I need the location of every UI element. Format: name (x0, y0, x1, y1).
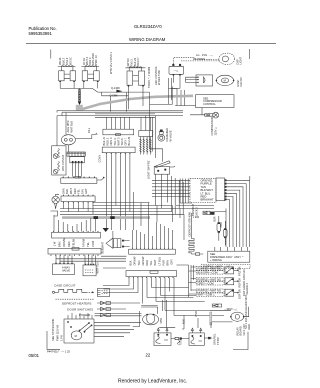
svg-text:SEE SYSTEM WIR: SEE SYSTEM WIR (51, 319, 55, 341)
wire auger conn drops (73, 163, 82, 177)
connector bar J5 (129, 249, 176, 254)
svg-text:BLU J9: BLU J9 (127, 136, 131, 145)
svg-text:A.L. PLN · —: A.L. PLN · — (196, 53, 213, 57)
svg-text:TAN/W: TAN/W (81, 238, 85, 247)
svg-text:FILL: FILL (87, 127, 91, 133)
water valve box A (53, 264, 75, 275)
door switch feed wires (177, 265, 197, 297)
control board connector P2 (102, 147, 135, 153)
svg-text:WHT: WHT (69, 188, 73, 194)
svg-text:ORN/W: ORN/W (62, 238, 66, 247)
control board connector P1 (103, 129, 134, 135)
svg-text:1 PH: 1 PH (60, 335, 64, 341)
svg-text:BRN/WHT: BRN/WHT (201, 198, 214, 202)
svg-text:CASE CIRCUIT: CASE CIRCUIT (54, 284, 76, 288)
svg-text:RED 2: RED 2 (106, 137, 110, 145)
power bus right (94, 322, 141, 336)
icemaker connector (139, 131, 153, 137)
svg-text:BLK: BLK (129, 260, 133, 265)
svg-text:115V △: 115V △ (214, 126, 218, 136)
evap fan start device (196, 75, 213, 86)
case circuit heater line (52, 291, 54, 293)
wire bracket under J2 (51, 202, 94, 216)
svg-text:BLK J1: BLK J1 (102, 137, 106, 146)
svg-text:RD4 C7: RD4 C7 (136, 57, 140, 67)
wires into dispenser (215, 247, 248, 251)
connector bar J6 (126, 271, 177, 277)
svg-text:BLK 2: BLK 2 (62, 57, 66, 65)
svg-text:RN5 2: RN5 2 (129, 59, 133, 67)
jack plug (203, 211, 210, 214)
svg-text:ORN: ORN (61, 188, 65, 194)
svg-text:1 W: 1 W (53, 241, 57, 247)
ADC defrost control relay (169, 66, 184, 74)
dashed wire to display light (173, 58, 219, 64)
svg-text:W DEF TMR: W DEF TMR (157, 70, 161, 85)
wires header to dispenser (226, 180, 249, 247)
timer box right edge (210, 312, 212, 325)
svg-text:ORN/W: ORN/W (133, 256, 137, 265)
svg-text:PNK: PNK (194, 311, 198, 317)
caption bracket (47, 331, 60, 349)
svg-text:NO 1 10A AND GUARD MOS: NO 1 10A AND GUARD MOS (244, 294, 248, 329)
overload relay K2 (81, 66, 99, 68)
solenoid plug left (106, 238, 113, 248)
wire nest bends right (176, 206, 226, 248)
ground screw icemaker (158, 134, 165, 141)
svg-text:DEFROST HTR 45W: DEFROST HTR 45W (188, 211, 192, 236)
wire nest verticals (134, 176, 184, 240)
wire C3 drops (129, 78, 173, 162)
harness gray bundle B (62, 216, 150, 219)
svg-text:PUR: PUR (161, 260, 165, 266)
svg-text:DOOR SWITCHES: DOOR SWITCHES (67, 307, 93, 311)
svg-text:COM: COM (91, 241, 95, 247)
wire compressor drop (190, 108, 205, 115)
wire relay bottoms (60, 83, 149, 92)
svg-text:TAN 6: TAN 6 (120, 138, 124, 146)
freezer light switch (154, 167, 169, 175)
svg-text:YEL/W: YEL/W (72, 238, 76, 247)
svg-text:BLK/ORN—COM: BLK/ORN—COM (198, 270, 218, 274)
defrost thermostat S1 (154, 333, 171, 346)
svg-text:HTR CONN B: HTR CONN B (61, 155, 65, 171)
svg-text:GREY—COM: GREY—COM (198, 281, 214, 285)
svg-text:LT BLU: LT BLU (157, 257, 161, 266)
valve box B (83, 265, 96, 276)
mullion heater box (52, 146, 66, 175)
svg-text:FRZ DR: FRZ DR (238, 266, 242, 276)
svg-text:WHT: WHT (153, 259, 157, 265)
compressor relay K1 (58, 66, 76, 68)
svg-text:PURPLE—WHT NO: PURPLE—WHT NO (198, 266, 222, 270)
dispenser assembly box (208, 251, 250, 262)
svg-text:3W RC: 3W RC (126, 58, 130, 66)
compressor control box (196, 95, 235, 108)
svg-text:NO 1 10V: NO 1 10V (242, 324, 246, 336)
power row plug (101, 313, 106, 316)
svg-text:GRY: GRY (170, 259, 174, 266)
condenser fan motor (231, 312, 244, 321)
svg-text:WTR VLV CONN 1: WTR VLV CONN 1 (109, 52, 113, 74)
svg-text:BRN: BRN (57, 241, 61, 247)
bundle B junctions (94, 216, 99, 219)
svg-text:WHT BLK: WHT BLK (69, 121, 73, 133)
harness gray bundle A (83, 96, 194, 109)
svg-text:WTR VLV: WTR VLV (96, 262, 100, 274)
svg-text:WHT—COM △: WHT—COM △ (198, 293, 216, 297)
door row plug (101, 307, 106, 310)
svg-text:RED: RED (247, 324, 251, 330)
twisted pair drop (79, 88, 81, 102)
power box top wires (68, 313, 92, 319)
connector bar J2 (61, 196, 95, 202)
svg-text:M: M (224, 79, 226, 83)
wire bus under bundle (57, 111, 183, 146)
junction arrowhead (78, 102, 81, 106)
svg-text:3W RL: 3W RL (58, 57, 62, 65)
header rule (26, 43, 276, 45)
dispenser harness header (190, 179, 216, 203)
svg-text:POWER: POWER (79, 313, 90, 317)
svg-text:GRN/W: GRN/W (141, 256, 145, 265)
display light DSP (219, 53, 235, 64)
connector bar J1 (61, 178, 97, 184)
wire auger (66, 113, 97, 139)
refrigerator door switch (196, 278, 224, 281)
svg-text:AUG MTR: AUG MTR (66, 120, 70, 132)
case dashed underline (56, 298, 95, 300)
thermistor R1 (217, 223, 221, 231)
wire fan feeds (172, 75, 199, 89)
wire rightmost drop (249, 176, 251, 180)
wires J6 to switch rows (147, 288, 224, 316)
freezer door switch (196, 267, 224, 270)
bracket tick right of DSP (249, 49, 251, 59)
auger motor (61, 135, 75, 145)
cond fan wires (210, 307, 249, 322)
wire arrow junction (116, 90, 122, 93)
svg-text:RED: RED (73, 188, 77, 194)
svg-text:TDM-5, *, # 30MM: TDM-5, *, # 30MM (147, 67, 151, 88)
svg-text:JACK 2: JACK 2 (195, 207, 199, 216)
svg-text:DSP DR: DSP DR (238, 289, 242, 299)
svg-text:BLK: BLK (65, 189, 69, 194)
timer wires (133, 300, 176, 328)
svg-text:ADC CONTROL: ADC CONTROL (154, 66, 158, 85)
svg-text:VALVE: VALVE (62, 268, 70, 272)
svg-text:PWC 1C: PWC 1C (94, 55, 98, 65)
svg-text:DEFROST HEATERS: DEFROST HEATERS (62, 302, 92, 306)
S2 output wire (204, 337, 212, 339)
dispenser door switch (196, 289, 224, 292)
svg-text:TSTAT: TSTAT (216, 337, 220, 345)
svg-text:PURPLE—WHT NO: PURPLE—WHT NO (198, 277, 222, 281)
svg-text:GRY 7: GRY 7 (124, 137, 128, 145)
ground screw left (52, 196, 59, 203)
svg-text:LIGHT SW FRZ: LIGHT SW FRZ (146, 160, 150, 179)
svg-text:TAN: TAN (137, 260, 141, 265)
harness bundle block (76, 105, 83, 111)
svg-text:Rendered by LeadVenture, Inc.: Rendered by LeadVenture, Inc. (118, 379, 187, 385)
svg-text:PWR 115V 60: PWR 115V 60 (55, 324, 59, 341)
svg-text:CONTROL: CONTROL (203, 102, 216, 106)
defrost heater element (189, 213, 203, 255)
svg-text:ORN 3: ORN 3 (109, 137, 113, 145)
svg-text:BLK: BLK (182, 319, 186, 324)
svg-text:GLRS234ZA*0: GLRS234ZA*0 (134, 24, 162, 29)
thermistor R2 (224, 229, 228, 237)
wires J5 risers (133, 222, 173, 248)
defrost thermostat S2 (189, 333, 204, 345)
svg-text:W VALVE: W VALVE (168, 130, 172, 141)
svg-text:RED: RED (67, 241, 71, 247)
start capacitor C3 (126, 67, 146, 69)
svg-text:FAN DC: FAN DC (239, 77, 243, 87)
svg-text:WIRING DIAGRAM: WIRING DIAGRAM (129, 37, 166, 42)
svg-text:RED: RED (145, 260, 149, 266)
svg-text:TSTAT: TSTAT (178, 337, 182, 345)
connector bar J4 (48, 248, 101, 254)
svg-text:TAN: TAN (80, 189, 84, 194)
svg-text:x 200: x 200 (193, 215, 200, 219)
svg-text:5995353991: 5995353991 (29, 31, 53, 36)
wire compressor box feed (169, 89, 196, 106)
svg-text:YEL: YEL (149, 260, 153, 265)
svg-text:LIGHT: LIGHT (239, 56, 243, 64)
svg-text:BRN: BRN (166, 260, 170, 266)
wire nest horizontals (60, 203, 184, 215)
svg-text:MTR: MTR (159, 318, 163, 324)
timer motor (143, 314, 159, 325)
svg-text:CONN: CONN (98, 155, 102, 163)
svg-text:YEL: YEL (86, 242, 90, 247)
svg-text:GRY: GRY (84, 188, 88, 194)
tick mark left margin (50, 50, 52, 59)
door switch row0 label (201, 265, 250, 269)
case circuit box (98, 288, 110, 296)
wires J3 risers (54, 215, 95, 232)
svg-text:PURPLE—WHT NO: PURPLE—WHT NO (198, 289, 222, 293)
wires J4 drops (56, 255, 127, 268)
svg-text:GUARD 2: GUARD 2 (245, 282, 249, 296)
defrost row plug (101, 301, 106, 304)
wires to thermostats (182, 315, 211, 329)
svg-text:22: 22 (146, 353, 151, 358)
svg-text:P#4T42L/* · — 1 25: P#4T42L/* · — 1 25 (47, 349, 70, 353)
svg-text:05/01: 05/01 (29, 353, 40, 358)
svg-text:Q-130K: Q-130K (111, 86, 120, 90)
compressor plug (205, 114, 213, 117)
svg-text:+ WIRING: + WIRING (210, 258, 222, 262)
thermostat link plug (171, 337, 189, 344)
svg-text:WHT 5: WHT 5 (116, 137, 120, 146)
svg-text:YEL 4: YEL 4 (113, 138, 117, 146)
svg-text:RN1 4: RN1 4 (65, 57, 69, 65)
wires J6 drops (103, 278, 174, 316)
svg-text:B2R: B2R (213, 216, 217, 221)
auger connector (67, 152, 85, 156)
svg-text:BLK/WHT: BLK/WHT (101, 242, 105, 254)
power switch box (64, 319, 94, 343)
bottom right bracket (233, 332, 248, 350)
section wires right (95, 303, 142, 316)
wire branch lower (102, 92, 129, 112)
cond fan plug (212, 304, 222, 307)
svg-text:YEL: YEL (77, 189, 81, 194)
svg-text:O5R: O5R (219, 222, 223, 227)
svg-text:BLK 24: BLK 24 (133, 57, 137, 66)
svg-text:COMPRESSOR: COMPRESSOR (210, 117, 214, 136)
svg-text:REF DR: REF DR (238, 278, 242, 288)
connector bar J3 (52, 232, 101, 238)
svg-text:M: M (75, 334, 77, 338)
svg-text:W2 5C: W2 5C (68, 57, 72, 65)
evap fan motor (216, 75, 233, 85)
